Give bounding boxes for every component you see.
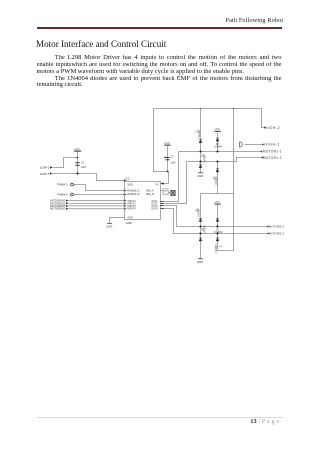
svg-text:ENABLE_A: ENABLE_A: [128, 189, 140, 192]
diode D4: [216, 169, 219, 172]
svg-text:MOTOR2IN2: MOTOR2IN2: [50, 207, 66, 211]
svg-text:100n: 100n: [171, 162, 177, 164]
svg-text:1N4004: 1N4004: [214, 147, 223, 149]
svg-text:PWM-1: PWM-1: [57, 183, 68, 187]
svg-text:D8: D8: [220, 246, 224, 248]
ground colA2: [198, 258, 203, 260]
terminal HIGH-1 source: [240, 142, 243, 147]
wire input1: [69, 200, 124, 202]
svg-text:MOTOR1-2: MOTOR1-2: [263, 156, 282, 160]
wire MOTOR1-2 drop to OUT2: [161, 162, 187, 204]
svg-text:INPUT4: INPUT4: [128, 208, 137, 210]
capacitor C2: [165, 157, 169, 159]
wire PWM-1: [73, 185, 123, 191]
svg-text:VDD: VDD: [74, 147, 80, 151]
svg-text:VDD: VDD: [215, 200, 221, 204]
wire MOTOR1-2 net: [187, 158, 261, 162]
svg-text:VS: VS: [155, 184, 159, 187]
diode D1: [199, 140, 202, 143]
node colB2 motor2-1: [216, 225, 218, 227]
svg-text:1N4004: 1N4004: [215, 244, 218, 253]
wire diode column A lower: [200, 194, 202, 259]
wire MOTOR1-1 net: [179, 151, 260, 153]
svg-text:MOTOR2-1: MOTOR2-1: [269, 225, 285, 229]
diode D8: [216, 238, 219, 241]
header rule: [37, 27, 282, 28]
page number: [0, 419, 280, 425]
wire diode column B upper: [217, 131, 219, 151]
wire MOTOR1-1 drop to OUT1: [161, 152, 179, 202]
wire input2: [69, 202, 124, 204]
wire C1 column: [77, 151, 79, 174]
node VS pin arrow: [161, 182, 164, 184]
svg-text:1N4004: 1N4004: [215, 176, 218, 185]
svg-text:SEN_B: SEN_B: [146, 194, 154, 196]
wire colB bottom to colA2 top: [201, 193, 234, 195]
resistor R2 sense: [171, 190, 175, 195]
svg-text:OUT4: OUT4: [151, 208, 158, 210]
wire PWM-2: [73, 194, 123, 196]
resistor R1 sense: [163, 191, 168, 194]
diode D6: [199, 238, 202, 241]
pin numbers OUT1-OUT4: [161, 201, 164, 209]
svg-text:MOTOR2-2: MOTOR2-2: [269, 232, 285, 236]
svg-text:L298: L298: [126, 221, 132, 225]
node rail-bus junction: [233, 108, 234, 109]
node rail-colA junction: [200, 108, 201, 109]
svg-text:C2: C2: [171, 156, 175, 158]
wire diode column A upper: [200, 109, 202, 173]
svg-text:R1 R2: R1 R2: [163, 188, 170, 190]
svg-text:HIGH-1: HIGH-1: [264, 143, 280, 147]
wire left drop from rail to VS pin route: [154, 109, 169, 184]
section heading: [36, 39, 166, 49]
svg-text:LOW-1: LOW-1: [40, 172, 50, 176]
svg-text:SEN_A: SEN_A: [146, 189, 154, 192]
svg-text:GND: GND: [197, 260, 203, 264]
svg-text:ENABLE_B: ENABLE_B: [128, 193, 140, 196]
svg-text:VDD: VDD: [164, 141, 170, 145]
node colA motor1-1: [199, 150, 201, 152]
page header text: [0, 17, 283, 24]
wire VS bus vertical: [218, 109, 234, 251]
diode D3: [216, 138, 219, 141]
diode D2: [199, 165, 202, 168]
svg-text:GND: GND: [106, 224, 112, 228]
footer rule: [37, 416, 283, 419]
svg-text:IC1: IC1: [125, 177, 130, 181]
wire C2 column: [167, 145, 169, 171]
node colA motor1-2: [199, 160, 201, 162]
node colB motor1-2: [216, 160, 218, 162]
svg-text:VDD: VDD: [128, 184, 133, 187]
svg-text:PWM-2: PWM-2: [57, 193, 68, 197]
node HIGH-2 label: [263, 127, 266, 129]
node colB2 motor2-2: [216, 232, 218, 234]
svg-text:LOW-2: LOW-2: [40, 165, 50, 169]
svg-text:MOTOR1-1: MOTOR1-1: [263, 150, 282, 154]
svg-text:GND: GND: [197, 174, 203, 178]
ground colA: [198, 172, 203, 174]
svg-text:1N4004: 1N4004: [203, 224, 206, 233]
diode D7: [216, 218, 219, 221]
wire HIGH-1: [245, 144, 261, 146]
wire diode column B lower: [217, 204, 219, 226]
diode D5: [199, 218, 202, 221]
svg-text:1N4004: 1N4004: [198, 129, 201, 138]
svg-text:100n: 100n: [81, 167, 87, 169]
svg-text:1N4004: 1N4004: [203, 154, 206, 163]
wire HIGH-2: [262, 109, 264, 128]
ground IC: [107, 222, 112, 224]
svg-text:1N4004: 1N4004: [214, 232, 223, 234]
node colA2 motor2-1: [199, 225, 201, 227]
node C1 low1 junction: [76, 172, 78, 174]
node C2 junction: [167, 171, 169, 173]
svg-text:GND: GND: [128, 217, 134, 220]
svg-text:C1: C1: [81, 163, 85, 165]
svg-text:HIGH-2: HIGH-2: [265, 126, 281, 130]
wire OUT4 to MOTOR2-2: [161, 209, 267, 234]
node colA2 motor2-2: [199, 232, 201, 234]
wire OUT3 to MOTOR2-1: [161, 206, 267, 227]
wire input4: [69, 208, 124, 210]
wire top supply rail: [154, 108, 262, 110]
node HIGH-1 label: [261, 144, 264, 146]
wire LOW-2: [53, 158, 78, 168]
wire IC ground: [110, 218, 125, 224]
capacitor C1: [75, 163, 79, 166]
wire LOW-1: [53, 174, 124, 181]
node colB motor1-1: [216, 150, 218, 152]
wire input3: [69, 205, 124, 207]
node C1 low2 junction: [77, 157, 79, 159]
svg-text:1N4004: 1N4004: [198, 208, 201, 217]
body paragraph: [37, 55, 282, 89]
